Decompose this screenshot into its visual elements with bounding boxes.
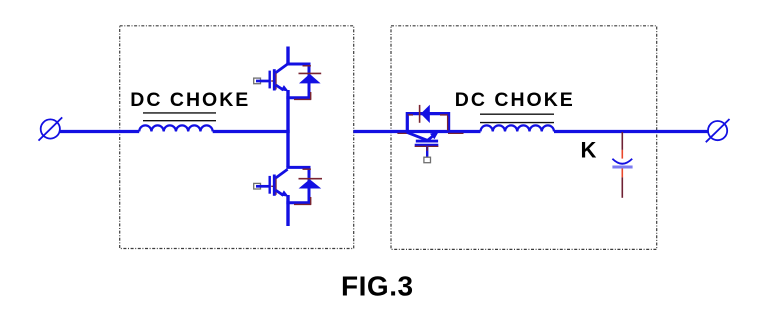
gate terminal square Q3 (424, 157, 431, 163)
left dashed converter box (120, 26, 354, 249)
wire: L2 to right port (554, 130, 708, 133)
inductor L1 (DC choke coil) (139, 125, 213, 131)
body bar Q1 (273, 69, 276, 90)
svg-text:FIG.3: FIG.3 (341, 270, 414, 301)
gate bar Q2 (269, 176, 271, 194)
transistor Q3 body (rotated IGBT below wire) (407, 131, 439, 163)
wire: Q2 emitter stub (286, 203, 289, 226)
wire: collector stub above Q1 (286, 47, 289, 65)
emitter diagonal Q2 (276, 190, 284, 195)
diode D2 red cathode bar (299, 178, 323, 180)
transistor Q1 IGBT body (254, 64, 289, 92)
collector diagonal Q3 (407, 132, 428, 140)
gate terminal square Q1 (254, 78, 261, 84)
transistor Q2 (lower IGBT) collector/emitter loop (286, 167, 309, 202)
emitter diagonal Q1 (276, 85, 284, 90)
gate bar Q1 (269, 71, 271, 89)
diode D3 (points left) (421, 105, 430, 123)
gate lead Q3 red top (426, 147, 428, 151)
port P1 (left terminal) (39, 117, 63, 140)
svg-text:DC CHOKE: DC CHOKE (455, 89, 575, 111)
wire: left port to L1 (60, 130, 139, 133)
emitter arrow Q3 (430, 131, 439, 139)
gate bar Q3 (lower) (415, 144, 439, 147)
emitter arrow Q2 (281, 190, 289, 196)
capacitor C1 lead upper (bright red) (621, 150, 623, 159)
inductor L2 (DC choke coil) (481, 125, 555, 131)
svg-text:DC CHOKE: DC CHOKE (130, 89, 250, 111)
inductor L1 core lines (143, 113, 216, 121)
svg-text:K: K (580, 138, 596, 163)
inductor L2 core lines (480, 114, 554, 122)
capacitor C1 curved top plate (612, 159, 632, 164)
emitter arrow Q1 (281, 85, 289, 91)
collector diagonal Q2 (276, 169, 288, 178)
gate lead Q1 (256, 80, 269, 83)
red under-wire trace right of Q3 (448, 132, 464, 134)
wire: midpoint node to Q2 collector (286, 132, 289, 168)
capacitor C1 flat bottom plate (612, 166, 632, 169)
diode D1 red cathode bar (299, 72, 322, 74)
capacitor C1 lead lower (dark) (621, 177, 623, 198)
wire: Q1 emitter to midpoint node (286, 90, 289, 132)
body bar Q2 (273, 175, 276, 196)
port P2 (right terminal) (706, 119, 730, 142)
capacitor C1 lead upper (dark) (621, 132, 623, 150)
red accents Q3 loop (440, 114, 448, 116)
gate bar Q3 red shadow (415, 145, 439, 147)
gate lead Q2 (256, 185, 269, 188)
diode D3 red cathode bar (vertical) (419, 105, 421, 123)
right dashed filter box (391, 26, 657, 250)
gate lead Q3 (426, 147, 428, 160)
transistor Q2 IGBT body (254, 169, 289, 197)
transistor Q1 (upper IGBT) collector/emitter loop (286, 64, 309, 98)
diode D2 (freewheel, points up) (299, 179, 322, 188)
wire: L1 to IGBT leg and into right box (213, 130, 290, 133)
emitter diagonal Q3 (428, 134, 436, 140)
capacitor C1 lead lower (bright red) (621, 169, 623, 178)
red under-wire trace left of Q3 (397, 132, 409, 134)
body bar Q3 (upper) (416, 140, 438, 143)
gate terminal square Q2 (254, 183, 261, 189)
collector diagonal Q1 (276, 64, 288, 73)
red corner accents Q1 (303, 65, 311, 67)
diode D1 (freewheel, points up) (299, 74, 321, 84)
transistor Q3 (series IGBT, horizontal) diode loop (407, 114, 448, 132)
wire: left box edge to L2 (353, 130, 480, 133)
wire: Q2 arrow to emitter node (286, 195, 289, 203)
red corner accents Q2 (303, 168, 311, 170)
